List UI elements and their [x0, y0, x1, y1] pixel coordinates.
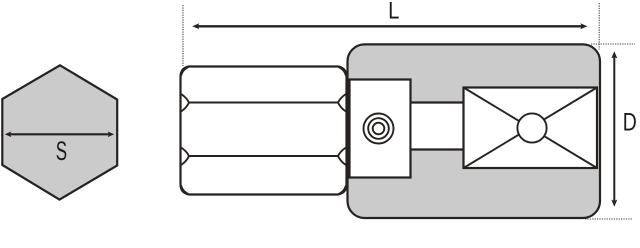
detent window (white rectangle) — [350, 80, 411, 178]
square drive box — [464, 88, 598, 169]
neck (white band) — [412, 104, 465, 150]
hex body side view outline — [181, 67, 347, 195]
extension line left (dashed) — [182, 5, 184, 66]
neck bottom line — [411, 148, 465, 150]
detent ball inner circle — [373, 123, 385, 135]
extension line top-right horizontal (dashed) — [591, 43, 635, 45]
neck top line — [411, 101, 465, 103]
detent ball outer circle — [364, 114, 394, 144]
svg-text:S: S — [56, 136, 67, 166]
dimension D arrow line — [611, 51, 617, 207]
extension line bottom-right horizontal (dashed) — [585, 218, 632, 220]
drive ball hole circle — [517, 113, 546, 142]
drive box diagonal 1 — [464, 88, 598, 169]
end view hexagon (across-flats) — [2, 65, 117, 199]
svg-text:L: L — [388, 0, 399, 24]
drive box diagonal 2 — [464, 88, 598, 169]
hex body corner chamfer arcs — [181, 67, 345, 194]
extension line right vertical (dashed) — [598, 3, 600, 50]
hex body face line upper — [181, 94, 346, 112]
dimension L arrow line — [192, 23, 587, 29]
svg-text:D: D — [623, 108, 637, 136]
detent ball middle circle — [368, 118, 389, 139]
dimension S arrow line — [5, 132, 114, 138]
hex body face line lower — [181, 148, 346, 166]
socket round body (grey) — [348, 44, 601, 218]
